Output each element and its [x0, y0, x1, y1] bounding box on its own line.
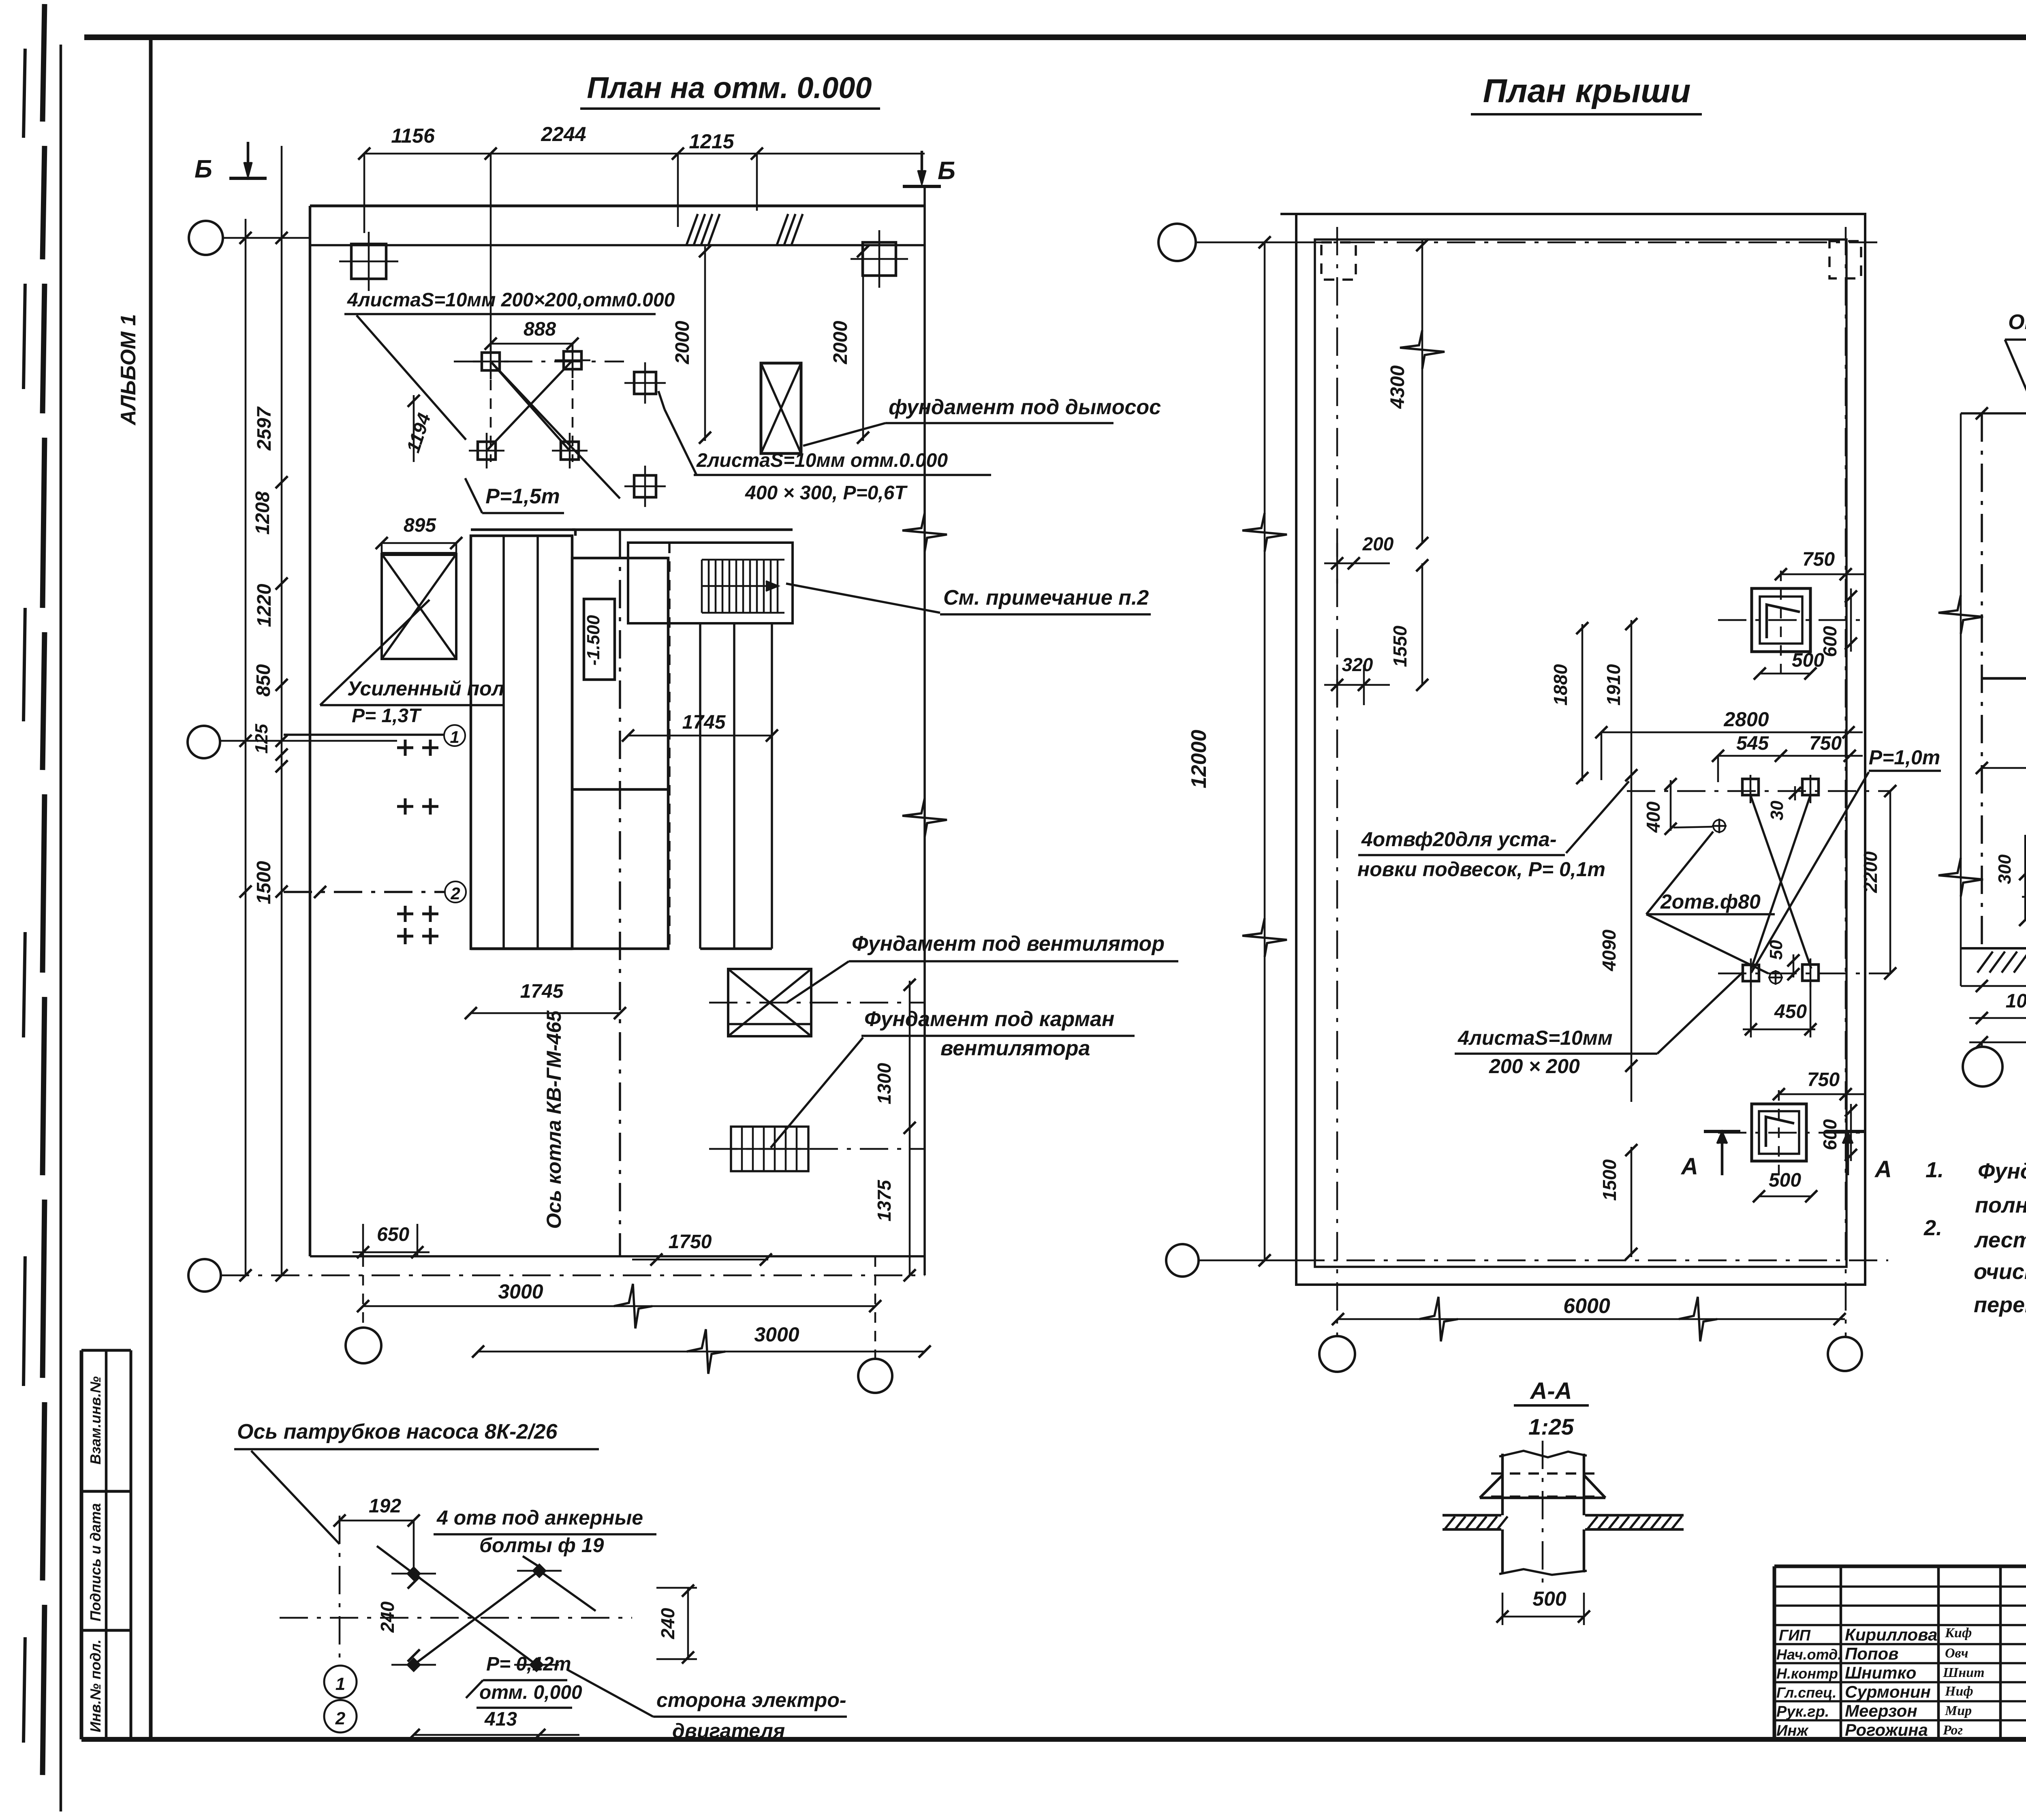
svg-text:Фундамент под вентилятор: Фундамент под вентилятор	[852, 932, 1165, 956]
AA roof slab	[1443, 1514, 1501, 1517]
svg-text:Сурмонин: Сурмонин	[1845, 1682, 1931, 1701]
right striped block	[699, 623, 701, 949]
svg-text:6000: 6000	[1563, 1294, 1610, 1318]
svg-text:500: 500	[1792, 650, 1824, 671]
svg-text:545: 545	[1736, 733, 1769, 754]
plan1 section cut line Б-Б vertical	[923, 187, 926, 1275]
frame border	[84, 34, 2026, 40]
anchor bolts cluster lower	[1743, 965, 1759, 981]
svg-text:1550: 1550	[1389, 625, 1411, 667]
svg-text:750: 750	[1809, 733, 1842, 754]
svg-text:125: 125	[252, 724, 271, 754]
pump detail axes	[339, 1516, 341, 1660]
roofplan outer rectangle	[1280, 213, 1296, 215]
svg-text:План на отм. 0.000: План на отм. 0.000	[587, 71, 872, 105]
svg-text:болты ф 19: болты ф 19	[479, 1534, 604, 1557]
plan1 building outline	[310, 205, 925, 207]
svg-text:Фундаменты под вентилятор, кот: Фундаменты под вентилятор, котел вы-	[1978, 1159, 2026, 1183]
svg-text:12000: 12000	[1187, 730, 1211, 789]
svg-text:2000: 2000	[830, 321, 851, 364]
roofplan corner bracket TL	[1321, 242, 1356, 280]
section mark A left	[1704, 1130, 1740, 1133]
boiler axis dashed ось котла	[619, 530, 621, 1256]
svg-text:Рог: Рог	[1943, 1723, 1963, 1738]
svg-text:Рук.гр.: Рук.гр.	[1776, 1703, 1829, 1720]
svg-text:1: 1	[450, 727, 459, 746]
svg-text:1500: 1500	[253, 861, 275, 904]
svg-text:300: 300	[1995, 854, 2015, 884]
svg-text:Инв.№ подл.: Инв.№ подл.	[87, 1639, 104, 1732]
foundation pad top-left with cross	[351, 244, 386, 279]
svg-text:Отверстие обрамить уголком: Отверстие обрамить уголком	[2008, 310, 2026, 334]
roofplan corner bracket TR	[1829, 241, 1861, 278]
section BB lower dim line 1	[1961, 985, 2026, 987]
AA pipe centerline	[1542, 1441, 1544, 1583]
roofplan vertical axis left	[1336, 227, 1338, 1336]
roofplan bottom circle right	[1828, 1337, 1862, 1371]
plan1 top dimension line	[364, 153, 925, 155]
bolt circle upper	[1713, 820, 1725, 832]
svg-text:Р= 1,3Т: Р= 1,3Т	[352, 705, 422, 727]
svg-text:Меерзон: Меерзон	[1845, 1701, 1917, 1720]
svg-text:Нач.отд.: Нач.отд.	[1776, 1646, 1842, 1663]
svg-text:2800: 2800	[1723, 708, 1769, 731]
plan1 section marker Б top-middle	[921, 151, 923, 183]
roofplan horizontal axis top	[1296, 242, 1880, 244]
pump anchor bolts	[406, 1566, 421, 1581]
svg-text:30: 30	[1767, 800, 1787, 820]
svg-text:Р=1,0т: Р=1,0т	[1869, 746, 1941, 769]
svg-text:отм. 0,000: отм. 0,000	[479, 1682, 582, 1703]
svg-text:1750: 1750	[669, 1231, 712, 1253]
svg-text:3000: 3000	[754, 1323, 799, 1346]
plan1 axis circle row A	[189, 221, 223, 255]
svg-text:Взам.инв.№: Взам.инв.№	[87, 1376, 104, 1465]
svg-text:500: 500	[1532, 1587, 1567, 1610]
svg-text:1500: 1500	[1599, 1159, 1620, 1201]
section BB ground hatching	[1977, 952, 1993, 973]
svg-text:4090: 4090	[1599, 929, 1620, 971]
svg-text:1880: 1880	[1550, 664, 1571, 706]
svg-text:2200: 2200	[1860, 851, 1881, 893]
svg-text:2.: 2.	[1923, 1216, 1942, 1240]
roofplan horizontal axis bottom	[1296, 1260, 1888, 1262]
title block columns	[1840, 1566, 1842, 1739]
svg-text:2597: 2597	[254, 406, 275, 451]
axis mark circled 2	[445, 881, 466, 903]
section BB ground line	[1961, 947, 2026, 950]
svg-text:3000: 3000	[498, 1280, 543, 1303]
svg-text:2: 2	[335, 1709, 346, 1728]
plan1 bottom axis circle 2	[874, 1256, 876, 1358]
svg-text:400 × 300, Р=0,6Т: 400 × 300, Р=0,6Т	[745, 482, 908, 504]
svg-text:4300: 4300	[1387, 365, 1408, 409]
svg-text:1910: 1910	[1603, 664, 1624, 706]
roof hatch opening 1	[1752, 588, 1810, 652]
svg-text:200 × 200: 200 × 200	[1489, 1055, 1580, 1078]
svg-text:вентилятора: вентилятора	[940, 1037, 1090, 1060]
svg-text:1375: 1375	[874, 1179, 895, 1221]
svg-text:Шнит: Шнит	[1943, 1665, 1985, 1680]
svg-text:413: 413	[484, 1709, 517, 1730]
svg-text:1220: 1220	[254, 584, 275, 627]
svg-text:2000: 2000	[672, 321, 693, 364]
svg-text:очистки по сравнению с ТП 903-: очистки по сравнению с ТП 903-1-210.84	[1974, 1260, 2026, 1284]
svg-text:А: А	[1874, 1156, 1892, 1183]
section BB left wall axis	[1981, 413, 1983, 948]
cluster diagonals	[1750, 795, 1811, 969]
AA pipe upper	[1501, 1454, 1504, 1515]
roof hatch opening 2	[1752, 1104, 1806, 1161]
svg-text:1300: 1300	[874, 1063, 895, 1104]
svg-text:450: 450	[1774, 1001, 1807, 1022]
foundation под карман grid rect	[731, 1127, 808, 1171]
svg-text:полнены на основании ТП 903-1: полнены на основании ТП 903-1-210,84	[1975, 1193, 2026, 1217]
svg-text:895: 895	[404, 515, 436, 536]
paper left edge marks	[43, 4, 45, 122]
svg-text:4листаS=10мм 200×200,отм0.000: 4листаS=10мм 200×200,отм0.000	[347, 289, 675, 311]
svg-text:888: 888	[524, 319, 556, 340]
plan1 axis circle row B	[188, 726, 220, 758]
svg-text:240: 240	[657, 1608, 678, 1639]
foundation под вентилятор X-rect	[728, 969, 811, 1036]
cluster X diagonal lines	[491, 361, 570, 451]
anchor plate small lower	[634, 475, 656, 497]
svg-text:Попов: Попов	[1845, 1644, 1899, 1663]
svg-text:1745: 1745	[682, 712, 726, 733]
svg-text:750: 750	[1802, 549, 1835, 570]
plan1 bottom axis stub left	[362, 1256, 364, 1326]
label -1.500 box	[584, 599, 615, 680]
svg-text:4отвф20для уста-: 4отвф20для уста-	[1361, 828, 1557, 851]
усиленный пол X-rect	[382, 554, 456, 659]
section BB axis circle left	[1981, 1042, 1983, 1047]
section BB floor slab line	[1982, 677, 2026, 680]
AA dashed collar lines	[1491, 1472, 1594, 1475]
svg-text:200: 200	[1362, 533, 1394, 554]
roofplan inner rectangle	[1315, 240, 1846, 1267]
pump circled axis 1	[324, 1666, 357, 1698]
svg-text:Овч: Овч	[1945, 1646, 1968, 1661]
svg-text:400: 400	[1643, 801, 1664, 833]
svg-text:1: 1	[336, 1674, 345, 1694]
svg-text:Ось патрубков насоса 8К-2/26: Ось патрубков насоса 8К-2/26	[237, 1420, 558, 1444]
plan1 wall hatch patch 2	[777, 214, 788, 245]
plan1 axis circle row C	[188, 1259, 221, 1292]
svg-text:1156: 1156	[391, 124, 435, 147]
svg-text:Б: Б	[938, 157, 955, 185]
svg-text:50: 50	[1766, 940, 1786, 960]
AA pipe lower	[1501, 1529, 1504, 1572]
svg-text:Рогожина: Рогожина	[1845, 1720, 1928, 1739]
svg-text:План крыши: План крыши	[1483, 73, 1691, 109]
section BB left dim line	[1960, 413, 1962, 986]
svg-text:4листаS=10мм: 4листаS=10мм	[1458, 1027, 1613, 1049]
svg-text:АЛЬБОМ 1: АЛЬБОМ 1	[117, 314, 140, 426]
section mark A right	[1829, 1130, 1866, 1133]
AA slab hatch left	[1445, 1516, 1455, 1529]
svg-text:1000: 1000	[2006, 990, 2026, 1012]
svg-text:2листаS=10мм отм.0.000: 2листаS=10мм отм.0.000	[696, 450, 948, 471]
svg-text:Гл.спец.: Гл.спец.	[1776, 1684, 1836, 1701]
svg-text:1.: 1.	[1926, 1158, 1944, 1182]
svg-text:850: 850	[253, 664, 274, 697]
roofplan bottom circle left	[1319, 1336, 1355, 1372]
pump circled axis 2	[324, 1700, 357, 1732]
svg-text:Киф: Киф	[1945, 1625, 1972, 1640]
anchor pads cluster 888	[482, 353, 500, 370]
stairs treads	[701, 560, 703, 613]
plus cross marks	[397, 746, 413, 749]
svg-text:Р= 0,12т: Р= 0,12т	[486, 1653, 571, 1675]
boiler foundation left striped block	[471, 536, 572, 949]
stairs box	[628, 543, 793, 623]
svg-text:192: 192	[369, 1495, 401, 1517]
section BB roof line	[1961, 412, 2026, 415]
svg-text:600: 600	[1819, 1119, 1840, 1150]
title block left rows	[1774, 1585, 2026, 1588]
svg-text:750: 750	[1807, 1069, 1840, 1091]
boiler right block	[572, 558, 668, 949]
svg-text:2: 2	[450, 884, 460, 903]
svg-text:650: 650	[377, 1224, 409, 1245]
plan1 bottom axis circle 1	[346, 1328, 381, 1363]
svg-text:Н.контр: Н.контр	[1776, 1665, 1838, 1682]
svg-text:новки подвесок, Р= 0,1т: новки подвесок, Р= 0,1т	[1357, 858, 1605, 881]
svg-text:1:25: 1:25	[1528, 1414, 1574, 1439]
svg-text:двигателя: двигателя	[672, 1719, 785, 1742]
svg-text:500: 500	[1769, 1170, 1801, 1191]
svg-text:Б: Б	[194, 155, 212, 183]
svg-text:Кириллова: Кириллова	[1845, 1625, 1937, 1644]
anchor bolts cluster upper	[1742, 779, 1759, 795]
roofplan axis circle top-left	[1158, 224, 1196, 261]
svg-text:1215: 1215	[689, 130, 734, 153]
pump bolts X diagonals	[414, 1574, 536, 1665]
svg-text:А: А	[1680, 1153, 1698, 1180]
svg-text:Фундамент под карман: Фундамент под карман	[864, 1007, 1114, 1031]
svg-text:ГИП: ГИП	[1779, 1627, 1811, 1644]
svg-text:Шнитко: Шнитко	[1845, 1663, 1916, 1682]
axis mark circled 1	[444, 725, 465, 746]
svg-text:Инж: Инж	[1776, 1722, 1809, 1739]
svg-text:Ось котла КВ-ГМ-465: Ось котла КВ-ГМ-465	[543, 1010, 565, 1229]
svg-text:2отв.ф80: 2отв.ф80	[1660, 890, 1761, 913]
svg-text:320: 320	[1342, 654, 1373, 675]
svg-text:сторона электро-: сторона электро-	[656, 1689, 846, 1711]
svg-text:-1.500: -1.500	[583, 615, 603, 665]
svg-text:Подпись и дата: Подпись и дата	[87, 1503, 104, 1621]
svg-text:240: 240	[377, 1601, 398, 1633]
AA flashing trapezoid	[1480, 1475, 1502, 1498]
svg-text:1208: 1208	[252, 491, 274, 535]
foundation под дымосос X-rect	[761, 363, 801, 453]
svg-text:4 отв под анкерные: 4 отв под анкерные	[436, 1506, 643, 1529]
svg-text:См. примечание п.2: См. примечание п.2	[943, 586, 1149, 610]
svg-text:переносится зеркально.: переносится зеркально.	[1974, 1293, 2026, 1317]
svg-text:фундамент под дымосос: фундамент под дымосос	[889, 396, 1161, 419]
svg-text:Мир: Мир	[1945, 1703, 1972, 1718]
svg-text:Р=1,5т: Р=1,5т	[485, 485, 560, 508]
roofplan vertical axis right	[1845, 227, 1847, 1337]
anchor plate small upper	[634, 372, 656, 394]
svg-text:1745: 1745	[520, 981, 564, 1002]
plan1 wall hatch patch 1	[686, 214, 698, 245]
sidebar stamp boxes bottom-left	[80, 1350, 83, 1739]
bolt circle lower	[1770, 971, 1782, 984]
plan1 left dimension chain lines	[245, 219, 247, 1275]
svg-text:А-А: А-А	[1529, 1378, 1572, 1404]
title block outer	[1774, 1565, 2026, 1568]
svg-text:2244: 2244	[541, 123, 586, 145]
svg-text:лестница для приямка под бунке: лестница для приямка под бункер дробе-	[1974, 1228, 2026, 1252]
roofplan axis circle bottom-left	[1166, 1244, 1199, 1277]
AA slab hatch right	[1587, 1516, 1598, 1529]
svg-text:Ниф: Ниф	[1945, 1684, 1973, 1699]
foundation pad top-right with cross	[863, 242, 896, 276]
svg-text:Усиленный пол: Усиленный пол	[347, 677, 504, 700]
